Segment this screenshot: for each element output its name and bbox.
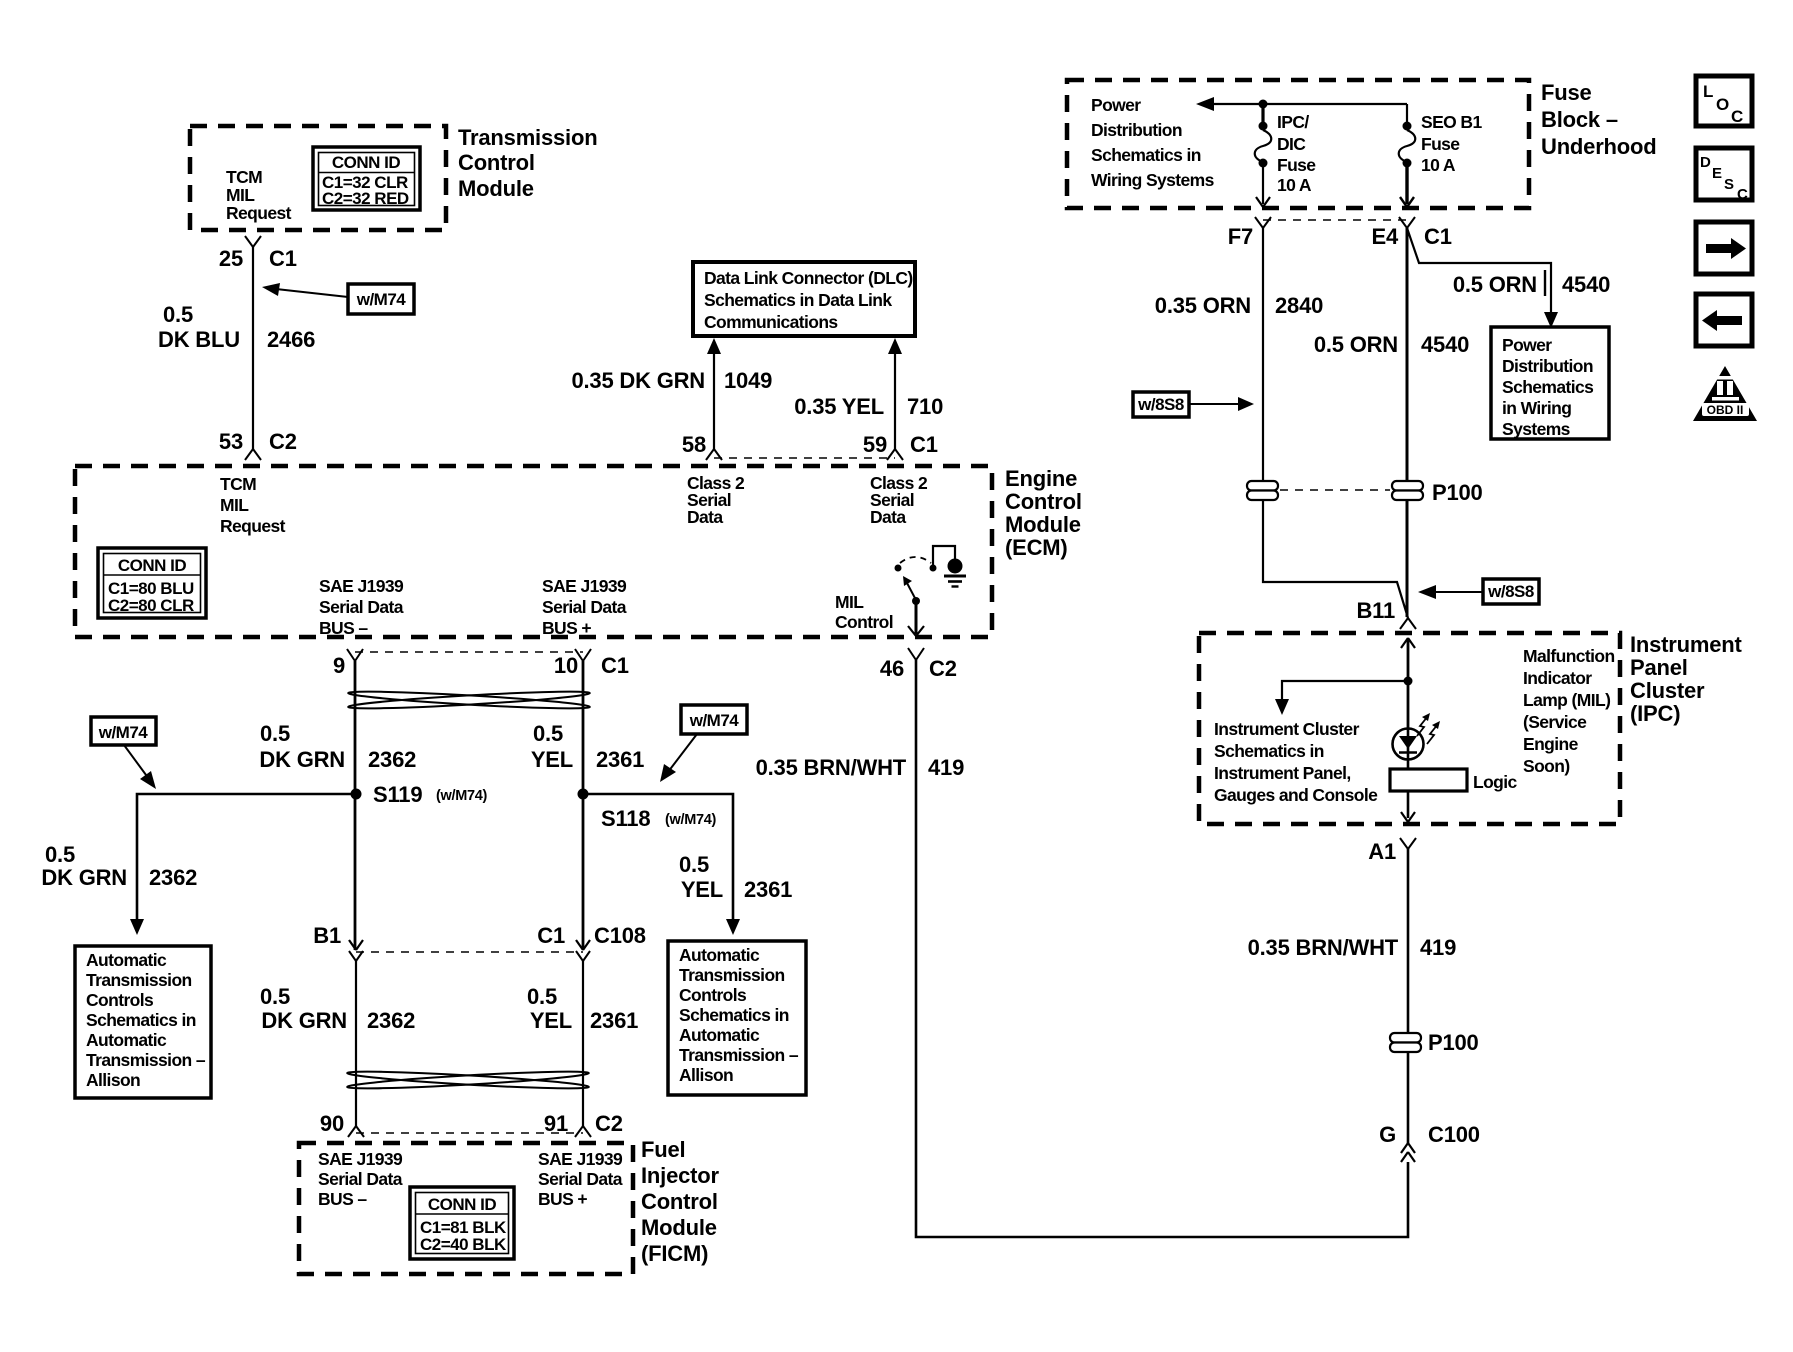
svg-text:B1: B1 (313, 923, 341, 948)
svg-text:DIC: DIC (1277, 134, 1306, 154)
svg-text:Transmission: Transmission (86, 970, 192, 990)
svg-text:2466: 2466 (267, 327, 315, 352)
svg-text:Request: Request (226, 203, 292, 223)
module IPC (Instrument Panel Cluster) box (1199, 632, 1743, 824)
svg-text:Distribution: Distribution (1502, 356, 1593, 376)
svg-text:Fuse: Fuse (1421, 134, 1460, 154)
dashed link B1-C1 (connector C108) (356, 951, 583, 953)
label w/M74 (TCM wire) (262, 283, 414, 314)
svg-text:Engine: Engine (1005, 466, 1077, 491)
svg-text:C1: C1 (1424, 224, 1452, 249)
svg-text:Schematics in: Schematics in (86, 1010, 196, 1030)
svg-text:w/8S8: w/8S8 (1487, 582, 1534, 601)
svg-text:9: 9 (333, 653, 345, 678)
svg-text:2361: 2361 (590, 1008, 638, 1033)
svg-text:59: 59 (863, 432, 887, 457)
svg-text:90: 90 (320, 1111, 344, 1136)
svg-text:C108: C108 (594, 923, 646, 948)
svg-text:Data Link Connector (DLC): Data Link Connector (DLC) (704, 268, 913, 288)
inline connector P100 (left, ORN wires) (1247, 481, 1278, 500)
svg-text:Allison: Allison (86, 1070, 140, 1090)
label w/M74 (S118 branch) (660, 705, 747, 782)
svg-text:F7: F7 (1228, 224, 1253, 249)
icon LOC button (1696, 76, 1752, 126)
wire fuse feed (to Power Distribution Schematics) (1196, 97, 1407, 122)
icon DESC button (1696, 148, 1752, 203)
svg-text:0.35 BRN/WHT: 0.35 BRN/WHT (1248, 935, 1399, 960)
svg-text:Transmission: Transmission (458, 125, 597, 150)
svg-text:10 A: 10 A (1277, 175, 1312, 195)
connector C1 C108 (arrowhead) (537, 923, 646, 961)
svg-text:Automatic: Automatic (679, 1025, 760, 1045)
connector pin A1 (IPC bottom) (1368, 838, 1416, 864)
connector pin F7 (fuse block bottom) (1228, 217, 1271, 249)
svg-text:Serial Data: Serial Data (319, 597, 404, 617)
svg-text:w/M74: w/M74 (356, 290, 407, 309)
svg-text:58: 58 (682, 432, 706, 457)
svg-text:C100: C100 (1428, 1122, 1480, 1147)
svg-text:4540: 4540 (1421, 332, 1469, 357)
svg-text:Module: Module (1005, 512, 1081, 537)
svg-text:YEL: YEL (681, 877, 723, 902)
svg-text:25: 25 (219, 246, 243, 271)
fuse SEO B1 10 A (1399, 112, 1483, 175)
icon previous-page arrow button (1696, 294, 1752, 346)
svg-text:SAE J1939: SAE J1939 (319, 576, 404, 596)
connector pin B11 (IPC top) (1356, 598, 1416, 629)
svg-text:Control: Control (1005, 489, 1082, 514)
wire fuse SEO B1 output to E4 (1400, 167, 1414, 207)
svg-text:Automatic: Automatic (679, 945, 760, 965)
svg-text:CONN ID: CONN ID (332, 153, 401, 172)
node junction (IPC lamp feed) (1404, 677, 1413, 686)
svg-text:Instrument Cluster: Instrument Cluster (1214, 719, 1360, 739)
svg-text:2361: 2361 (744, 877, 792, 902)
svg-text:Block –: Block – (1541, 107, 1618, 132)
wire 0.35 BRN/WHT 419 (ECM pin 46 to C100) (756, 660, 1408, 1237)
svg-text:0.5: 0.5 (679, 852, 709, 877)
lamp MIL (LED indicator) (1393, 713, 1441, 769)
svg-text:Malfunction: Malfunction (1523, 646, 1615, 666)
wire 0.5 DK BLU 2466 (TCM MIL Request) (158, 246, 315, 449)
svg-text:BUS –: BUS – (319, 618, 368, 638)
MIL driver switch (ECM internal) (895, 546, 956, 605)
svg-text:C1: C1 (269, 246, 297, 271)
svg-text:Schematics in: Schematics in (679, 1005, 789, 1025)
svg-text:MIL: MIL (220, 495, 249, 515)
wire 0.5 DK GRN 2362 (S119 branch to Allison schematics) (41, 794, 356, 935)
svg-text:0.5: 0.5 (45, 842, 75, 867)
svg-text:710: 710 (907, 394, 943, 419)
svg-text:B11: B11 (1356, 598, 1395, 623)
svg-text:IPC/: IPC/ (1277, 112, 1309, 132)
svg-text:10 A: 10 A (1421, 155, 1456, 175)
wire P100 to C100 (1407, 1052, 1410, 1143)
svg-text:2362: 2362 (367, 1008, 415, 1033)
svg-text:Transmission –: Transmission – (86, 1050, 206, 1070)
svg-text:C2: C2 (595, 1111, 623, 1136)
svg-text:MIL: MIL (226, 185, 255, 205)
connector pin 53 C2 (ECM top) (219, 429, 297, 460)
svg-text:0.5 ORN: 0.5 ORN (1314, 332, 1398, 357)
svg-text:0.35 DK GRN: 0.35 DK GRN (571, 368, 705, 393)
svg-text:Communications: Communications (704, 312, 838, 332)
svg-text:0.5: 0.5 (533, 721, 563, 746)
svg-text:2361: 2361 (596, 747, 644, 772)
svg-text:YEL: YEL (530, 1008, 572, 1033)
svg-text:S119: S119 (373, 782, 422, 807)
svg-text:C2: C2 (929, 656, 957, 681)
svg-text:0.5: 0.5 (260, 984, 290, 1009)
svg-text:C2=32 RED: C2=32 RED (322, 189, 409, 208)
wire 0.5 YEL 2361 (S118 branch to Allison schematics) (583, 794, 792, 935)
svg-text:Data: Data (687, 507, 723, 527)
svg-text:L: L (1703, 82, 1713, 101)
splice S119 (w/M74) (351, 782, 488, 807)
svg-text:C: C (1731, 107, 1743, 126)
svg-text:419: 419 (928, 755, 964, 780)
module TCM (Transmission Control Module) box (190, 125, 597, 230)
svg-text:Instrument: Instrument (1630, 632, 1743, 657)
module FICM (Fuel Injector Control Module) box (299, 1137, 719, 1274)
CONN ID table (FICM) (410, 1187, 514, 1259)
dashed link pins F7-E4 (connector C1) (1263, 219, 1407, 221)
wire 0.5 ORN 4540 (E4 to P100) (1314, 228, 1469, 481)
svg-text:46: 46 (880, 656, 904, 681)
svg-text:0.5: 0.5 (260, 721, 290, 746)
connector pin 91 C2 (FICM top) (544, 1111, 623, 1137)
wire MIL control to pin 46 (908, 601, 924, 636)
svg-text:Request: Request (220, 516, 286, 536)
svg-text:C: C (1737, 186, 1748, 203)
splice S118 (w/M74) (578, 789, 717, 832)
connector pin 90 (FICM top) (320, 1111, 364, 1137)
svg-text:in Wiring: in Wiring (1502, 398, 1571, 418)
svg-text:10: 10 (554, 653, 578, 678)
svg-text:Controls: Controls (86, 990, 154, 1010)
note box Power Distribution Schematics in Wiring Systems (1491, 327, 1609, 439)
svg-text:Transmission –: Transmission – (679, 1045, 799, 1065)
connector pin 59 C1 (ECM top) (863, 432, 938, 460)
dashed link pins 9-10 (connector C1) (355, 651, 583, 653)
svg-text:Serial Data: Serial Data (542, 597, 627, 617)
wire 0.35 BRN/WHT 419 (A1 to P100) (1248, 849, 1457, 1033)
svg-text:Data: Data (870, 507, 906, 527)
svg-text:w/8S8: w/8S8 (1137, 395, 1184, 414)
svg-text:C2=80 CLR: C2=80 CLR (108, 596, 194, 615)
label w/8S8 (B11) (1418, 579, 1539, 604)
wire 0.5 DK GRN 2362 (BUS -, pin 9 to B1) (259, 661, 416, 950)
svg-text:Cluster: Cluster (1630, 678, 1705, 703)
connector pin 46 C2 (ECM bottom) (880, 648, 957, 681)
inline connector P100 (BRN/WHT wire) (1390, 1030, 1479, 1055)
svg-text:Soon): Soon) (1523, 756, 1570, 776)
label w/8S8 (F7 wire) (1133, 392, 1254, 417)
svg-text:Engine: Engine (1523, 734, 1579, 754)
wire 0.35 ORN 2840 (F7 to P100) (1155, 228, 1323, 481)
icon next-page arrow button (1696, 222, 1752, 274)
svg-text:C1: C1 (601, 653, 629, 678)
logic block (IPC) (1390, 769, 1518, 792)
connector G C100 (pass-through) (1379, 1122, 1480, 1162)
wire 0.35 DK GRN 1049 (Class 2 serial data to DLC) (571, 338, 772, 449)
wire 0.5 DK GRN 2362 (C108 to FICM pin 90) (260, 961, 415, 1126)
connector pin E4 C1 (fuse block bottom) (1371, 217, 1451, 249)
svg-text:0.35 YEL: 0.35 YEL (794, 394, 884, 419)
svg-text:SAE J1939: SAE J1939 (538, 1149, 623, 1169)
svg-text:SAE J1939: SAE J1939 (542, 576, 627, 596)
svg-text:419: 419 (1420, 935, 1456, 960)
svg-text:S118: S118 (601, 806, 650, 831)
svg-text:(Service: (Service (1523, 712, 1587, 732)
svg-text:Underhood: Underhood (1541, 134, 1657, 159)
module Fuse Block - Underhood box (1067, 80, 1657, 208)
dashed link pins 58-59 (connector C1) (714, 457, 895, 459)
svg-text:Panel: Panel (1630, 655, 1688, 680)
svg-text:w/M74: w/M74 (689, 711, 740, 730)
connector pin 58 (ECM top) (682, 432, 722, 460)
svg-text:0.5: 0.5 (163, 302, 193, 327)
svg-text:S: S (1724, 176, 1734, 193)
node junction (fuse feed) (1259, 100, 1268, 109)
svg-text:P100: P100 (1428, 1030, 1479, 1055)
svg-text:Power: Power (1091, 95, 1141, 115)
svg-text:(FICM): (FICM) (641, 1241, 708, 1266)
svg-text:4540: 4540 (1562, 272, 1610, 297)
svg-text:Allison: Allison (679, 1065, 733, 1085)
svg-text:O: O (1716, 95, 1729, 114)
svg-text:Fuse: Fuse (1541, 80, 1592, 105)
wire B11 into IPC (MIL lamp feed) (1401, 638, 1415, 730)
svg-text:Controls: Controls (679, 985, 747, 1005)
svg-text:Lamp (MIL): Lamp (MIL) (1523, 690, 1610, 710)
twisted pair symbol (lower) (347, 1068, 589, 1091)
svg-text:D: D (1700, 154, 1711, 171)
wire 0.5 YEL 2361 (BUS +, pin 10 to C108) (531, 661, 644, 950)
svg-text:Serial Data: Serial Data (318, 1169, 403, 1189)
svg-text:Schematics in: Schematics in (1214, 741, 1324, 761)
svg-text:SAE J1939: SAE J1939 (318, 1149, 403, 1169)
svg-text:CONN ID: CONN ID (118, 556, 187, 575)
wire fuse IPC/DIC output to F7 (1256, 167, 1270, 207)
svg-text:C2: C2 (269, 429, 297, 454)
wire branch to Instrument Cluster schematics (1214, 681, 1408, 805)
svg-text:Control: Control (641, 1189, 718, 1214)
connector pin 10 C1 (ECM bottom) (554, 649, 629, 678)
svg-text:OBD II: OBD II (1707, 403, 1744, 417)
svg-text:CONN ID: CONN ID (428, 1195, 497, 1214)
svg-text:A1: A1 (1368, 839, 1396, 864)
svg-text:C1: C1 (910, 432, 938, 457)
ground (ECM internal) (944, 559, 966, 587)
svg-text:Power: Power (1502, 335, 1552, 355)
svg-text:YEL: YEL (531, 747, 573, 772)
wire E4 ORN below P100 to B11 (1406, 500, 1409, 617)
svg-text:Automatic: Automatic (86, 1030, 167, 1050)
svg-text:(ECM): (ECM) (1005, 535, 1068, 560)
svg-text:2362: 2362 (149, 865, 197, 890)
svg-text:(w/M74): (w/M74) (436, 788, 488, 804)
svg-text:Instrument Panel,: Instrument Panel, (1214, 763, 1351, 783)
CONN ID table (ECM) (98, 548, 206, 618)
note box Automatic Transmission Allison (right) (668, 941, 806, 1095)
wire logic output to A1 (1401, 791, 1415, 822)
fuse IPC/DIC 10 A (1255, 112, 1317, 195)
wire 0.35 YEL 710 (Class 2 serial data to DLC) (794, 338, 943, 449)
connector pin 25 C1 (TCM) (219, 236, 297, 271)
svg-text:91: 91 (544, 1111, 568, 1136)
svg-text:P100: P100 (1432, 480, 1483, 505)
svg-text:Distribution: Distribution (1091, 120, 1182, 140)
note box Automatic Transmission Allison (left) (75, 946, 211, 1098)
inline connector P100 (right) + label (1392, 480, 1483, 505)
svg-text:SEO B1: SEO B1 (1421, 112, 1482, 132)
dashed link P100 pair (1280, 489, 1390, 491)
svg-text:0.35 BRN/WHT: 0.35 BRN/WHT (756, 755, 907, 780)
svg-text:0.35 ORN: 0.35 ORN (1155, 293, 1251, 318)
svg-text:E4: E4 (1371, 224, 1398, 249)
wire F7 ORN below P100 to B11 (1263, 500, 1408, 618)
twisted pair symbol (upper) (348, 688, 590, 711)
svg-text:0.5 ORN: 0.5 ORN (1453, 272, 1537, 297)
svg-text:Schematics: Schematics (1502, 377, 1594, 397)
svg-text:53: 53 (219, 429, 243, 454)
svg-text:Injector: Injector (641, 1163, 719, 1188)
svg-text:Automatic: Automatic (86, 950, 167, 970)
svg-text:MIL: MIL (835, 592, 864, 612)
svg-text:Control: Control (458, 150, 535, 175)
svg-text:(w/M74): (w/M74) (665, 812, 717, 828)
module ECM (Engine Control Module) box (75, 466, 1082, 638)
svg-text:(IPC): (IPC) (1630, 701, 1680, 726)
svg-text:TCM: TCM (226, 167, 262, 187)
icon OBD II symbol (1693, 366, 1757, 421)
CONN ID table (TCM) (313, 147, 420, 210)
svg-text:Logic: Logic (1473, 772, 1518, 792)
svg-text:Transmission: Transmission (679, 965, 785, 985)
dashed link pins 90-91 (connector C2) (356, 1132, 583, 1134)
svg-text:DK GRN: DK GRN (41, 865, 127, 890)
svg-text:w/M74: w/M74 (98, 723, 149, 742)
svg-text:Gauges and Console: Gauges and Console (1214, 785, 1378, 805)
svg-text:1049: 1049 (724, 368, 772, 393)
svg-text:BUS +: BUS + (542, 618, 591, 638)
wire 0.5 YEL 2361 (C108 to FICM pin 91) (527, 961, 638, 1126)
svg-text:Wiring Systems: Wiring Systems (1091, 170, 1215, 190)
svg-text:C1: C1 (537, 923, 565, 948)
wire 0.5 ORN 4540 branch (E4 to Power Distribution Schematics) (1407, 228, 1610, 328)
connector B1 (arrowhead into C108 row) (313, 923, 363, 961)
svg-text:Systems: Systems (1502, 419, 1571, 439)
note box DLC (Data Link Connector) (693, 262, 915, 336)
svg-text:Control: Control (835, 612, 893, 632)
svg-text:2362: 2362 (368, 747, 416, 772)
svg-text:G: G (1379, 1122, 1396, 1147)
svg-text:0.5: 0.5 (527, 984, 557, 1009)
svg-text:C2=40 BLK: C2=40 BLK (420, 1235, 507, 1254)
svg-text:BUS +: BUS + (538, 1189, 587, 1209)
svg-text:Schematics in Data Link: Schematics in Data Link (704, 290, 892, 310)
svg-text:Module: Module (458, 176, 534, 201)
svg-text:Fuse: Fuse (1277, 155, 1316, 175)
svg-text:Module: Module (641, 1215, 717, 1240)
svg-text:Fuel: Fuel (641, 1137, 685, 1162)
svg-text:E: E (1712, 165, 1722, 182)
svg-text:TCM: TCM (220, 474, 256, 494)
connector pin 9 (ECM bottom) (333, 649, 363, 678)
svg-text:DK GRN: DK GRN (261, 1008, 347, 1033)
svg-text:Serial Data: Serial Data (538, 1169, 623, 1189)
svg-text:BUS –: BUS – (318, 1189, 367, 1209)
svg-text:DK GRN: DK GRN (259, 747, 345, 772)
svg-text:DK BLU: DK BLU (158, 327, 240, 352)
label w/M74 (left branch) (91, 717, 156, 789)
svg-text:Indicator: Indicator (1523, 668, 1592, 688)
svg-text:2840: 2840 (1275, 293, 1323, 318)
svg-text:Schematics in: Schematics in (1091, 145, 1201, 165)
